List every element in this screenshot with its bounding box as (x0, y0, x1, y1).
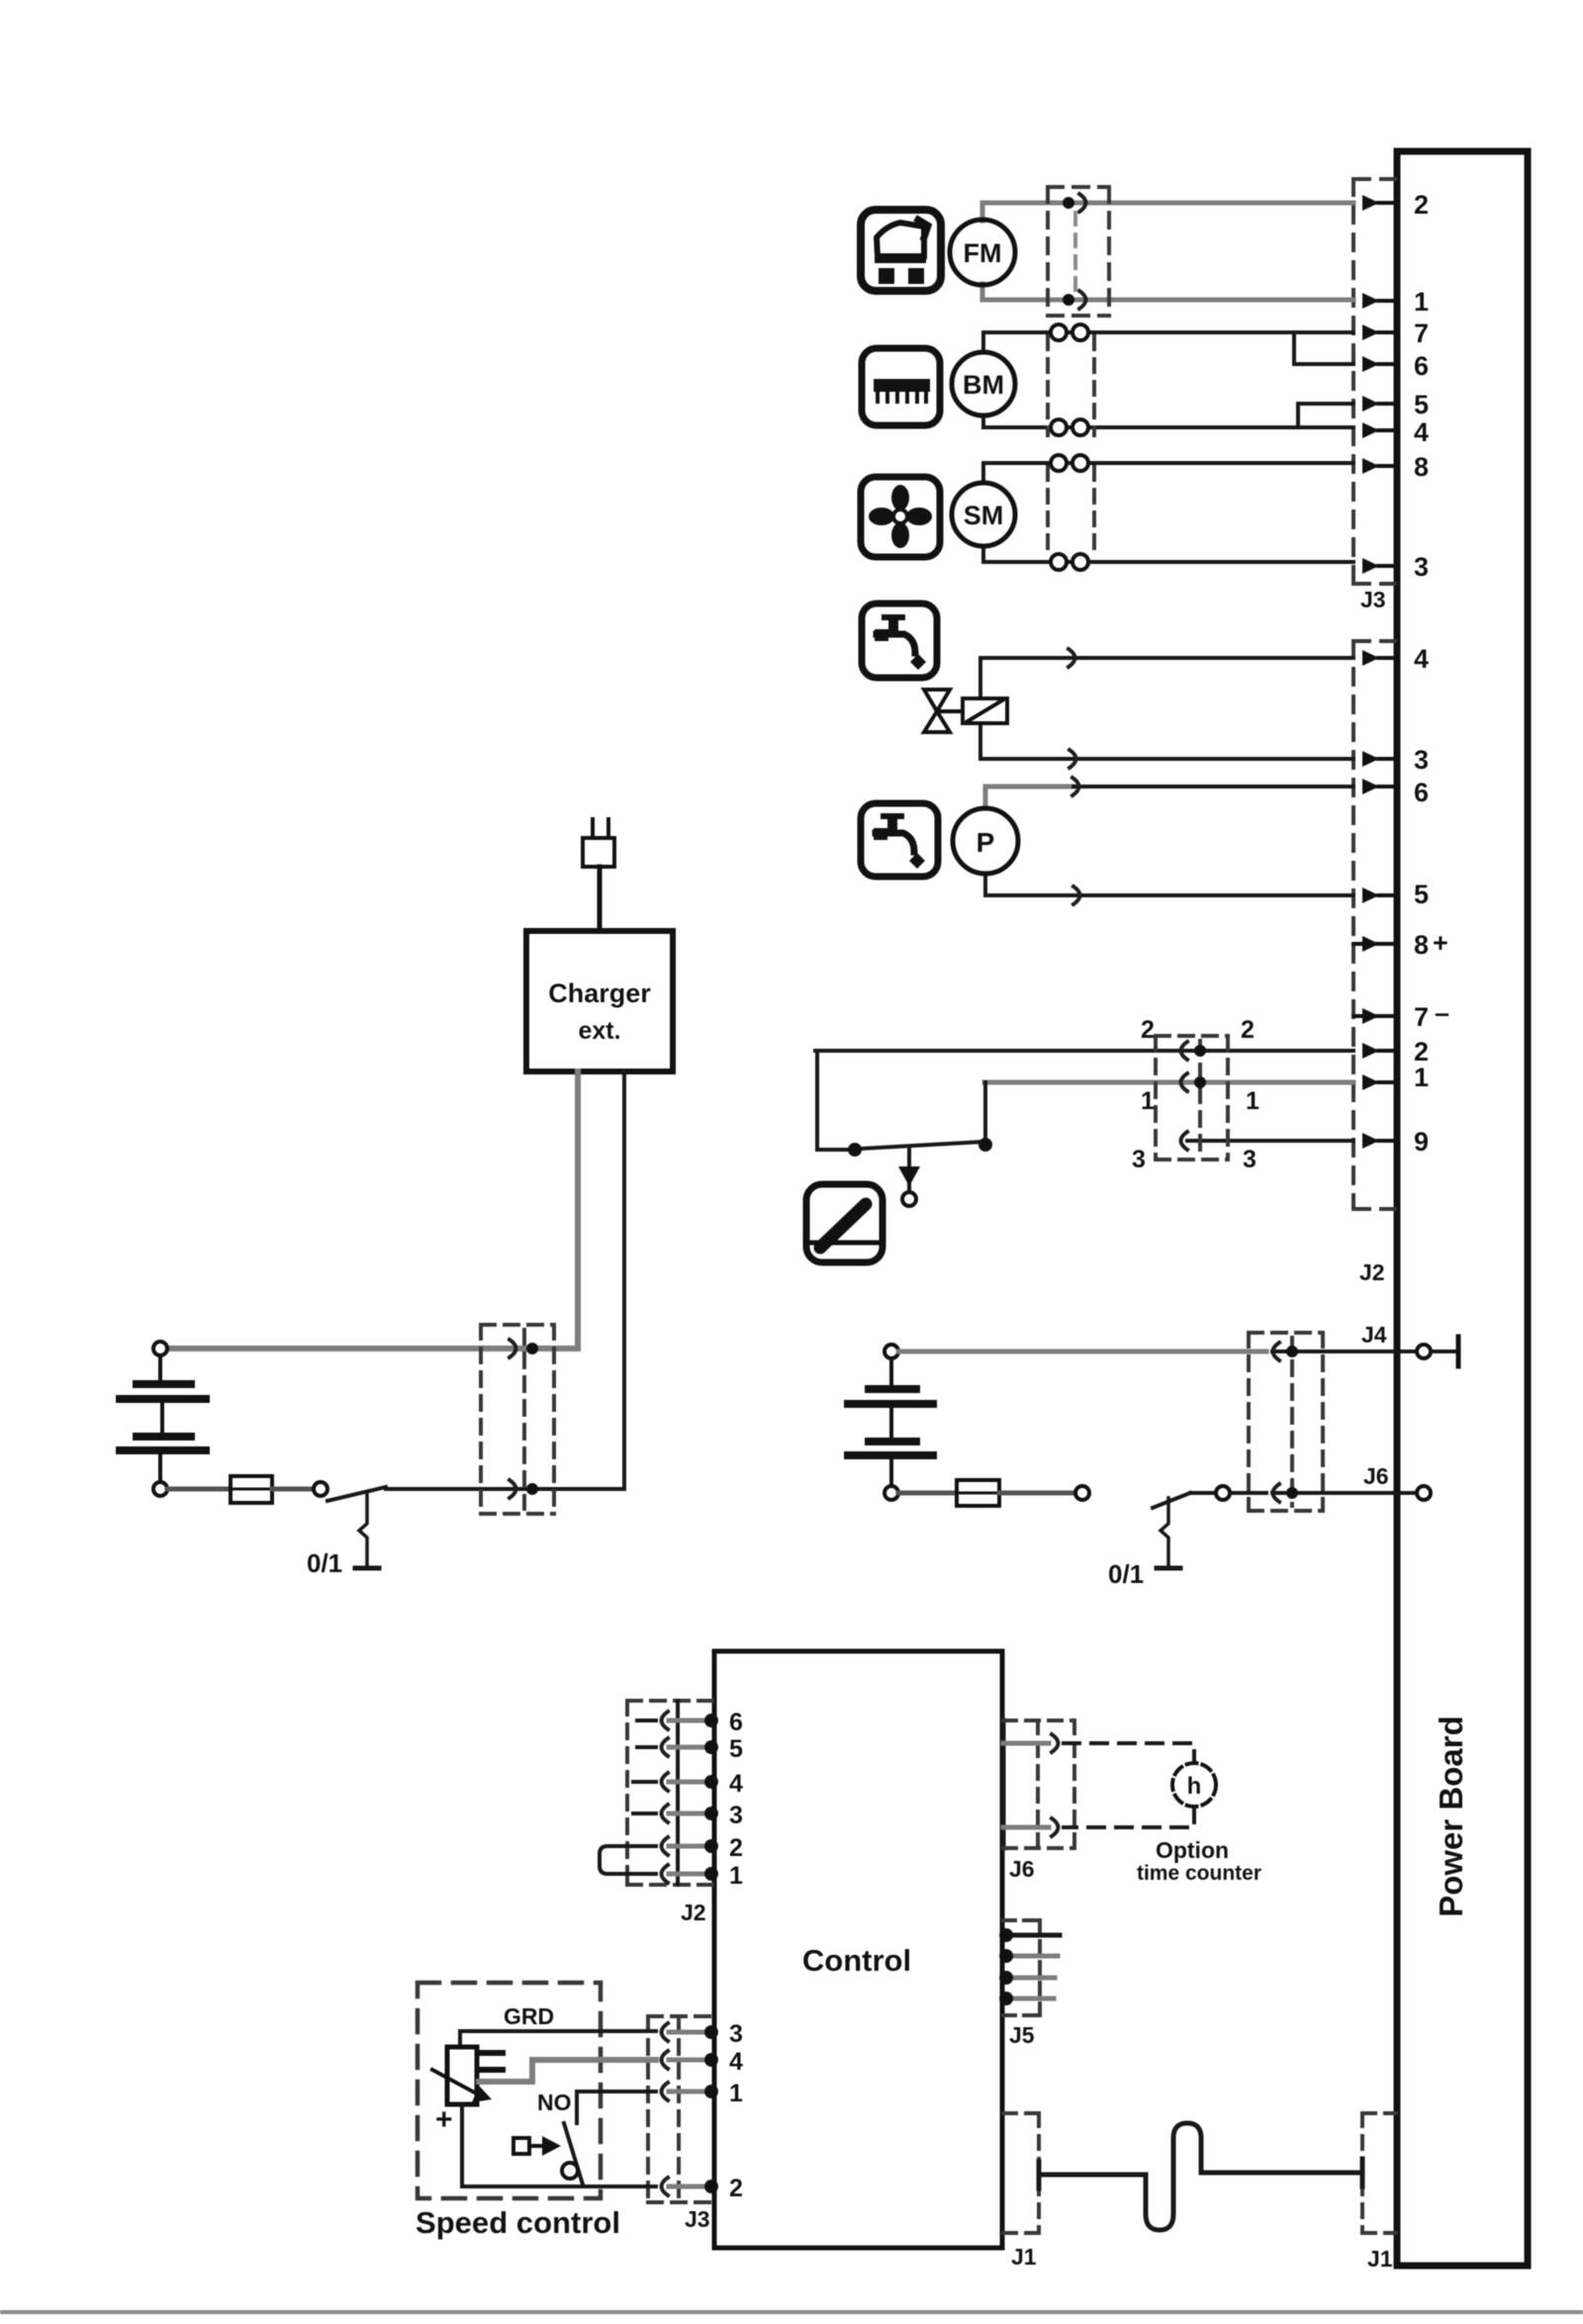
wire BM bottom to pin 4 (983, 416, 1353, 427)
svg-text:8: 8 (1414, 452, 1429, 482)
svg-text:2: 2 (729, 1834, 743, 1862)
float level icon (806, 1184, 883, 1262)
svg-text:ext.: ext. (578, 1017, 620, 1045)
wire wiper to pin4 (479, 2060, 656, 2082)
svg-text:Charger: Charger (548, 978, 651, 1008)
connector J5 at control (1003, 1920, 1040, 2015)
svg-text:8: 8 (1414, 930, 1429, 960)
motor SM circle (952, 483, 1015, 546)
inline connector circles on BM wires (1051, 325, 1088, 435)
svg-text:BM: BM (963, 370, 1004, 400)
svg-text:NO: NO (537, 2090, 572, 2115)
svg-text:time counter: time counter (1137, 1862, 1261, 1885)
battery GB1 (153, 1342, 167, 1355)
svg-text:1: 1 (1414, 1063, 1429, 1092)
svg-text:J3: J3 (1360, 587, 1386, 612)
svg-text:J2: J2 (1359, 1259, 1385, 1285)
wire pump bottom to pin 5 (985, 874, 1353, 895)
fuse F1 (167, 1487, 231, 1492)
wire FM bottom to pin 1 (982, 284, 1353, 300)
svg-text:3: 3 (1414, 552, 1429, 582)
wire pump top to pin 6 (985, 787, 1073, 808)
svg-text:GRD: GRD (504, 2003, 554, 2029)
svg-text:3: 3 (1132, 1146, 1146, 1173)
pump P circle (953, 808, 1018, 874)
wire battery GB2 + to J4 (898, 1349, 1266, 1354)
wire control J1 to power board J1 (1039, 2123, 1362, 2230)
svg-text:6: 6 (729, 1709, 743, 1736)
svg-text:2: 2 (729, 2175, 743, 2202)
svg-text:Power Board: Power Board (1433, 1716, 1469, 1917)
wire charger right (black) down to switch connector (386, 1071, 624, 1489)
charger ext box (526, 931, 673, 1071)
svg-text:1: 1 (1414, 287, 1429, 317)
svg-text:3: 3 (1243, 1146, 1257, 1173)
battery GB2 (right) (885, 1345, 898, 1358)
water tap icon (pump) (861, 803, 938, 877)
solenoid valve Y1 (924, 690, 1007, 732)
svg-text:Speed control: Speed control (416, 2205, 620, 2240)
connector J1 at control (1003, 2113, 1039, 2233)
fuse F2 (898, 1491, 957, 1496)
svg-text:–: – (1435, 998, 1449, 1028)
wire connector row3 to pin 9 (1187, 1139, 1353, 1143)
svg-text:1: 1 (1246, 1087, 1259, 1115)
svg-text:1: 1 (1141, 1087, 1155, 1115)
connector J2 dashed shell at power board (1353, 641, 1395, 1209)
motor BM circle (952, 352, 1015, 416)
svg-text:P: P (977, 827, 995, 858)
jumper pin5 to pin4 (1298, 404, 1353, 427)
svg-text:9: 9 (1414, 1127, 1429, 1157)
float actuator probe (907, 1149, 911, 1192)
svg-text:3: 3 (729, 1802, 743, 1829)
svg-text:+: + (435, 2103, 453, 2136)
svg-text:2: 2 (1414, 190, 1429, 220)
svg-text:5: 5 (1414, 880, 1429, 909)
pin arrows J3 (1362, 195, 1379, 574)
wire SM top to pin 8 (983, 463, 1353, 483)
connector J3 dashed shell at power board (1353, 179, 1395, 584)
svg-text:Option: Option (1156, 1837, 1229, 1863)
connector J3 at control (648, 2016, 714, 2202)
svg-text:J2: J2 (681, 1900, 706, 1925)
wire NO switch to pin1 (577, 2092, 656, 2123)
BM brush icon (862, 348, 940, 425)
FM squeegee icon (861, 210, 941, 291)
jumper pin7 to pin6 (1294, 332, 1353, 364)
svg-text:2: 2 (1241, 1016, 1255, 1044)
control box (714, 1651, 1002, 2248)
svg-text:0/1: 0/1 (307, 1548, 342, 1578)
svg-text:FM: FM (964, 238, 1002, 268)
wire solenoid valve bottom to pin 3 (980, 723, 1353, 759)
inline connector circles on SM wires (1051, 455, 1088, 570)
SM fan icon (861, 477, 940, 557)
connector J1 at power board (1362, 2113, 1396, 2233)
svg-text:+: + (1433, 928, 1448, 958)
hour meter h (1064, 1743, 1194, 1827)
svg-text:7: 7 (1414, 319, 1429, 348)
svg-text:J1: J1 (1011, 2244, 1037, 2270)
wire GRD to pin3 (460, 2031, 656, 2047)
svg-text:J6: J6 (1009, 1856, 1035, 1882)
svg-text:J5: J5 (1009, 2022, 1035, 2048)
connector (inline) on FM wires (1079, 194, 1086, 309)
svg-text:J6: J6 (1363, 1463, 1389, 1489)
svg-text:5: 5 (1414, 390, 1429, 419)
svg-text:J3: J3 (685, 2206, 710, 2232)
float switch wiring (817, 1051, 985, 1150)
svg-text:5: 5 (729, 1735, 743, 1763)
wire charger left (gray) down to battery connector (167, 1071, 578, 1348)
wire float switch to pin 2 (815, 1049, 1353, 1053)
svg-text:7: 7 (1414, 1002, 1429, 1032)
mains plug (583, 819, 614, 867)
water tap icon (valve) (862, 604, 937, 678)
svg-text:1: 1 (729, 1862, 743, 1890)
svg-text:SM: SM (964, 501, 1004, 530)
power board U100 (1397, 151, 1528, 2266)
inline connector battery GB2 (1249, 1333, 1323, 1511)
microswitch NO (564, 2123, 583, 2185)
wire FM top to pin 2 (982, 203, 1353, 221)
speed control dashed box (418, 1983, 601, 2198)
inline connector 2/1/3 (1156, 1036, 1228, 1160)
wire switch to J6 (1272, 1491, 1417, 1495)
svg-text:2: 2 (1141, 1016, 1155, 1044)
svg-text:3: 3 (1414, 745, 1429, 775)
pin arrows J2 (1362, 650, 1379, 1149)
svg-text:3: 3 (729, 2020, 743, 2048)
inline connector charger/battery (481, 1325, 554, 1514)
svg-text:6: 6 (1414, 778, 1429, 807)
svg-text:4: 4 (729, 1770, 743, 1798)
connector J6 at control (1001, 1720, 1006, 1848)
svg-text:J4: J4 (1361, 1322, 1387, 1348)
svg-text:Control: Control (802, 1943, 911, 1978)
svg-text:4: 4 (729, 2048, 743, 2076)
connector J2 at control (627, 1701, 714, 1885)
svg-text:h: h (1187, 1773, 1202, 1800)
wire plug to charger (598, 867, 603, 931)
jumper plug on J2 pins 2-1 (600, 1846, 656, 1874)
svg-text:0/1: 0/1 (1108, 1559, 1144, 1589)
svg-text:6: 6 (1414, 351, 1429, 381)
svg-text:4: 4 (1414, 418, 1429, 447)
wire BM top to pin 7 (983, 332, 1353, 352)
wire solenoid valve top to pin 4 (980, 658, 1353, 698)
page bottom scan line (0, 2310, 1583, 2314)
wire float switch to pin 1 (984, 1080, 1353, 1085)
wire SM bottom to pin 3 (983, 546, 1353, 562)
wire pot bottom to pin2 (462, 2104, 656, 2186)
svg-text:J1: J1 (1367, 2246, 1393, 2272)
key switch 0/1 (left) (327, 1487, 386, 1501)
svg-text:1: 1 (729, 2080, 743, 2107)
potentiometer R1 (447, 2047, 477, 2104)
svg-text:4: 4 (1414, 644, 1429, 674)
motor FM circle (950, 220, 1015, 285)
key switch 0/1 (right) (1153, 1493, 1190, 1508)
